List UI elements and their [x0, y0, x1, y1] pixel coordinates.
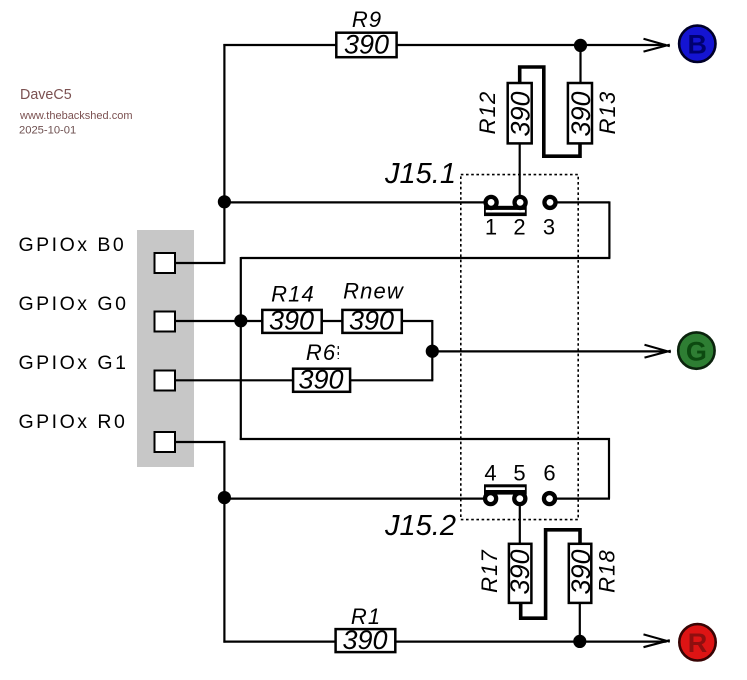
wire right vertical upper	[608, 201, 610, 258]
wire R14 to Rnew	[322, 320, 343, 322]
node junction B line	[574, 39, 587, 52]
svg-text:390: 390	[342, 625, 387, 655]
resistor Rnew	[342, 279, 404, 336]
resistor R6	[293, 340, 350, 395]
wire G line	[431, 350, 667, 352]
svg-text:1: 1	[485, 215, 497, 240]
pin 1	[486, 197, 497, 208]
wire right vertical lower	[608, 438, 610, 499]
pin 5	[514, 493, 525, 504]
pin 2	[515, 197, 526, 208]
node G output	[678, 332, 714, 368]
jumper shunt 1-2	[484, 206, 527, 216]
wire mid vertical G0	[240, 257, 242, 440]
node junction G	[426, 345, 439, 358]
svg-text:3: 3	[543, 215, 555, 240]
resistor R17	[477, 544, 535, 603]
wire return upper	[241, 257, 611, 259]
svg-text:B: B	[688, 30, 708, 60]
svg-text:R12: R12	[475, 91, 500, 135]
svg-text:390: 390	[349, 306, 394, 336]
pin 6	[544, 493, 555, 504]
wire R18 bottom	[579, 602, 581, 642]
wire B0 pad to vertical	[175, 262, 225, 264]
wire pin 3 to right	[557, 201, 610, 203]
wire Rnew to corner	[402, 320, 433, 322]
svg-text:4: 4	[484, 461, 496, 486]
wire R12 bottom to pin 2	[519, 142, 521, 196]
svg-text:6: 6	[543, 461, 555, 486]
wire J15.2 row	[223, 498, 484, 500]
svg-text:GPIOx R0: GPIOx R0	[19, 411, 128, 433]
svg-text:R17: R17	[477, 549, 502, 593]
svg-text:390: 390	[298, 365, 343, 395]
svg-text:R9: R9	[352, 7, 382, 32]
wire top B line	[223, 44, 666, 46]
svg-text:2025-10-01: 2025-10-01	[19, 125, 76, 137]
resistor R18	[566, 544, 620, 603]
svg-text:390: 390	[506, 91, 536, 136]
wire bracket R12 top to R13 bottom	[520, 67, 580, 156]
svg-text:390: 390	[566, 91, 596, 136]
svg-text:G: G	[686, 336, 707, 366]
wire bracket R17 bottom to R18 top	[521, 530, 580, 618]
wire bottom R line	[223, 640, 666, 642]
resistor R1	[336, 604, 396, 655]
connector J15 dashed outline	[461, 175, 578, 520]
svg-text:DaveC5: DaveC5	[20, 87, 72, 103]
svg-text:2: 2	[513, 215, 525, 240]
node junction R left	[218, 491, 231, 504]
resistor R14	[262, 282, 321, 336]
svg-text:390: 390	[269, 306, 314, 336]
wire pin 5 to R17	[519, 505, 521, 545]
title block	[19, 87, 133, 137]
svg-text:Rnew: Rnew	[343, 279, 405, 304]
svg-text:R13: R13	[595, 91, 620, 135]
jumper shunt 4-5	[484, 484, 527, 494]
svg-text:www.thebackshed.com: www.thebackshed.com	[19, 110, 133, 122]
resistor R13	[566, 83, 620, 143]
pin 4	[485, 493, 496, 504]
node B output	[679, 26, 715, 62]
svg-text:390: 390	[566, 549, 596, 594]
wire pin 6 to right	[556, 498, 610, 500]
wire G corner vertical	[431, 320, 433, 380]
wire return lower	[240, 438, 610, 440]
pad G1	[155, 371, 176, 391]
svg-text:390: 390	[344, 30, 389, 60]
node junction G0	[234, 314, 247, 327]
svg-text:R14: R14	[271, 282, 315, 307]
svg-text:GPIOx G1: GPIOx G1	[19, 352, 129, 374]
resistor R9	[336, 7, 396, 60]
node junction B left	[218, 195, 231, 208]
wire G0 pad to R14	[175, 320, 263, 322]
resistor R12	[475, 83, 536, 143]
svg-text:R18: R18	[595, 549, 620, 593]
pin 3	[544, 197, 555, 208]
arrow R out	[644, 634, 670, 647]
pad R0	[155, 432, 176, 452]
arrow B out	[644, 39, 670, 52]
wire R13 top	[579, 45, 581, 84]
wire R0 pad to vertical	[175, 441, 225, 443]
arrow G out	[645, 345, 671, 358]
wire G1 pad to R6	[175, 379, 294, 381]
wire J15.1 row	[223, 201, 484, 203]
svg-text:5: 5	[513, 461, 525, 486]
pad G0	[155, 312, 176, 332]
wire left vertical B	[223, 44, 225, 263]
svg-text:J15.1: J15.1	[384, 158, 456, 190]
node R output	[679, 624, 715, 660]
node junction R line	[573, 635, 586, 648]
svg-text:J15.2: J15.2	[384, 510, 456, 542]
svg-text:GPIOx B0: GPIOx B0	[19, 234, 127, 256]
connector body (gray)	[137, 230, 194, 467]
pad B0	[155, 253, 176, 273]
svg-text:R: R	[688, 628, 708, 658]
svg-text:R6: R6	[306, 340, 336, 365]
wire left vertical R	[223, 441, 225, 643]
svg-text:390: 390	[505, 549, 535, 594]
wire R6 to corner	[350, 379, 433, 381]
svg-text:GPIOx G0: GPIOx G0	[19, 293, 129, 315]
